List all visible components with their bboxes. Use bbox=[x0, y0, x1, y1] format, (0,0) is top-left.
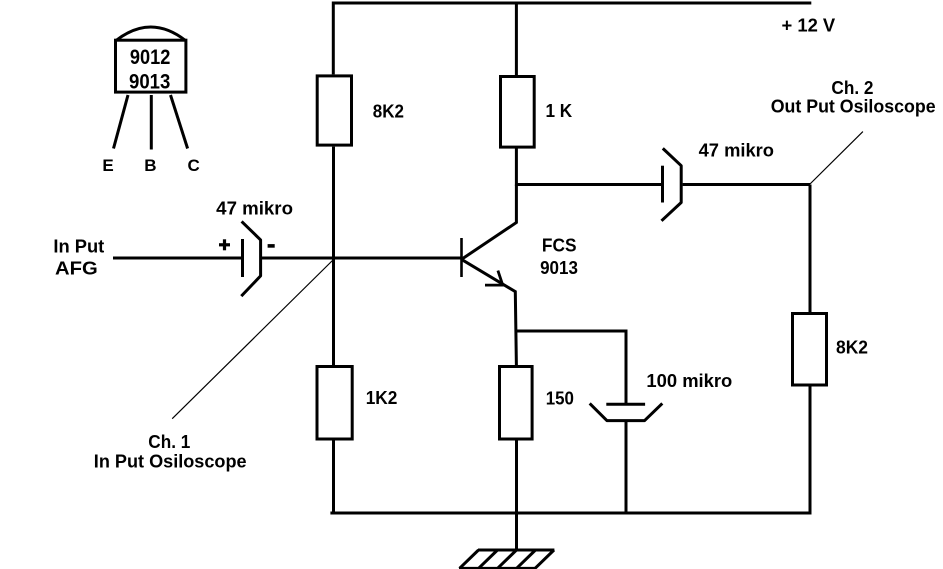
resistor R2 1K2 bbox=[317, 367, 352, 440]
capacitor C1 47 mikro straight plate bbox=[241, 239, 244, 277]
svg-text:+ 12 V: + 12 V bbox=[782, 15, 836, 35]
package leg B bbox=[150, 95, 153, 150]
svg-text:1 K: 1 K bbox=[546, 101, 573, 121]
wire input to C1 bbox=[113, 257, 241, 260]
transistor Q1 base bar bbox=[460, 238, 463, 277]
minus sign bbox=[268, 244, 275, 248]
svg-text:8K2: 8K2 bbox=[373, 101, 404, 121]
wire output node down to 8K2 bbox=[809, 185, 812, 314]
svg-text:In Put Osiloscope: In Put Osiloscope bbox=[94, 452, 247, 472]
wire 150 to ground bbox=[515, 439, 518, 550]
wire emitter branch to C3 bbox=[517, 331, 627, 404]
transistor package outline bbox=[116, 27, 186, 92]
wire 1K drop from rail bbox=[515, 3, 518, 76]
package leg C bbox=[171, 95, 188, 149]
svg-text:1K2: 1K2 bbox=[366, 388, 398, 408]
wire C1 to base bbox=[262, 257, 461, 260]
svg-text:9013: 9013 bbox=[129, 70, 170, 93]
wire C3 to bottom rail bbox=[625, 421, 628, 513]
svg-text:47 mikro: 47 mikro bbox=[216, 199, 293, 219]
svg-text:B: B bbox=[144, 156, 156, 175]
svg-text:C: C bbox=[188, 156, 200, 175]
pointer line to Ch. 1 bbox=[172, 260, 333, 419]
resistor R4 150 bbox=[500, 367, 533, 440]
svg-text:8K2: 8K2 bbox=[836, 338, 868, 358]
svg-text:Ch. 2: Ch. 2 bbox=[831, 78, 873, 98]
pointer line to Ch. 2 bbox=[810, 132, 863, 184]
svg-text:9012: 9012 bbox=[130, 46, 170, 69]
capacitor C3 curved plate bbox=[590, 403, 663, 420]
wire 8K2 to bottom rail bbox=[809, 385, 812, 515]
wire collector to transistor bbox=[462, 185, 516, 260]
wire bottom rail bbox=[330, 512, 810, 515]
plus sign bbox=[219, 239, 230, 250]
svg-text:In Put: In Put bbox=[53, 236, 104, 256]
wire 1K2 to bottom rail bbox=[332, 439, 335, 513]
wire base column bbox=[332, 147, 335, 366]
capacitor C2 47 mikro straight plate bbox=[661, 166, 664, 203]
capacitor C2 curved plate bbox=[662, 148, 682, 220]
package leg E bbox=[114, 95, 129, 149]
capacitor C1 curved plate bbox=[241, 221, 260, 296]
wire top rail with 8K2 drop bbox=[333, 3, 811, 74]
wire collector net bbox=[516, 147, 661, 185]
svg-text:47 mikro: 47 mikro bbox=[699, 141, 774, 161]
svg-text:150: 150 bbox=[546, 388, 574, 408]
svg-text:FCS: FCS bbox=[542, 236, 577, 256]
svg-text:9013: 9013 bbox=[540, 258, 578, 278]
ground bbox=[459, 550, 554, 568]
svg-text:100 mikro: 100 mikro bbox=[646, 371, 732, 391]
resistor R5 8K2 bbox=[793, 314, 827, 386]
svg-text:AFG: AFG bbox=[55, 259, 98, 279]
resistor R1 8K2 bbox=[317, 76, 351, 145]
transistor Q1 emitter arrow bbox=[485, 271, 505, 286]
svg-text:Out Put Osiloscope: Out Put Osiloscope bbox=[771, 96, 936, 116]
wire C2 to output node bbox=[683, 183, 810, 186]
svg-text:E: E bbox=[102, 156, 113, 175]
svg-text:Ch. 1: Ch. 1 bbox=[148, 432, 190, 452]
transistor Q1 emitter bbox=[462, 260, 516, 366]
resistor R3 1K bbox=[501, 77, 535, 148]
capacitor C3 100 mikro straight plate bbox=[606, 403, 645, 406]
